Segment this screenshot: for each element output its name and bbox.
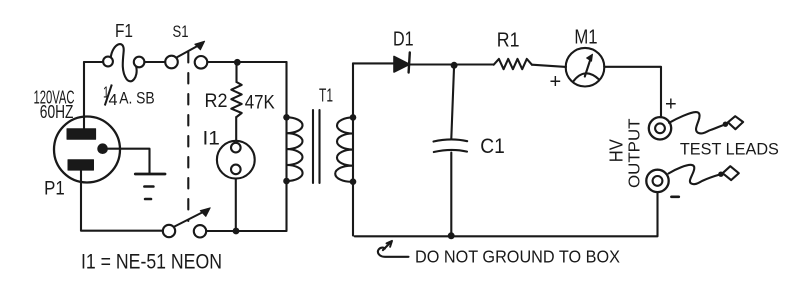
wire bottom jack to bottom rail	[355, 192, 658, 236]
wire R1 to M1	[532, 65, 566, 67]
svg-text:F1: F1	[115, 21, 133, 41]
svg-text:+: +	[550, 71, 562, 93]
wire I1 to bottom rail	[235, 179, 237, 231]
wire S1 lower to primary bottom	[206, 230, 286, 232]
label fuse value 1/4 A. SB	[103, 85, 155, 110]
svg-text:T1: T1	[319, 86, 333, 106]
svg-text:+: +	[665, 94, 677, 116]
capacitor C1	[434, 65, 468, 235]
svg-text:HV: HV	[607, 139, 627, 162]
wire M1 to output corner	[604, 67, 661, 117]
svg-text:OUTPUT: OUTPUT	[627, 118, 644, 188]
svg-text:C1: C1	[480, 135, 505, 158]
resistor R2	[231, 62, 241, 117]
test lead top	[669, 112, 743, 133]
node R2 top junction	[234, 59, 241, 66]
svg-text:R1: R1	[497, 30, 520, 52]
jack J2 negative output	[646, 170, 668, 192]
plug P1	[54, 117, 120, 183]
svg-text:4: 4	[109, 92, 118, 109]
S1 mechanical link dashed line	[187, 52, 189, 221]
wire S1 to transformer primary top, node at R2	[207, 61, 286, 63]
jack J1 positive output	[649, 117, 671, 139]
svg-text:47K: 47K	[245, 93, 275, 114]
svg-text:S1: S1	[173, 22, 189, 41]
transformer T1 primary vertical wire	[285, 62, 287, 231]
wire ground pin to earth	[108, 149, 150, 174]
svg-text:I1 = NE-51 NEON: I1 = NE-51 NEON	[81, 250, 222, 274]
svg-text:TEST LEADS: TEST LEADS	[680, 140, 779, 159]
wire D1 to R1	[410, 63, 494, 65]
node secondary bottom	[350, 178, 357, 185]
svg-text:60HZ: 60HZ	[40, 102, 74, 122]
wire left vertical into plug	[83, 62, 85, 129]
svg-text:D1: D1	[393, 29, 414, 51]
svg-text:R2: R2	[205, 91, 228, 112]
svg-text:I1: I1	[203, 129, 220, 150]
diode D1	[394, 53, 410, 73]
test lead bottom	[669, 165, 739, 184]
node C1 bottom junction	[448, 232, 455, 239]
wire F1 to S1	[144, 61, 165, 63]
svg-text:DO NOT GROUND TO BOX: DO NOT GROUND TO BOX	[415, 246, 620, 266]
wire plug bottom to S1 lower pole	[81, 170, 163, 231]
ground symbol	[135, 174, 165, 199]
node primary bottom	[283, 178, 290, 185]
T1 core	[313, 110, 320, 183]
wire R2 to I1	[235, 117, 237, 141]
transformer secondary vertical wire	[352, 63, 354, 235]
minus label	[671, 196, 678, 199]
node secondary top	[350, 114, 357, 121]
svg-text:A. SB: A. SB	[119, 89, 155, 108]
meter M1	[566, 48, 605, 87]
T1 secondary winding	[335, 117, 353, 181]
svg-text:M1: M1	[574, 27, 597, 49]
neon lamp I1	[217, 141, 255, 179]
switch S1 top pole	[165, 41, 207, 68]
node C1 top junction	[451, 62, 458, 69]
switch S1 bottom pole	[163, 208, 210, 238]
resistor R1	[494, 59, 532, 69]
arrow do-not-ground callout	[378, 241, 409, 257]
fuse F1	[103, 44, 144, 81]
node primary top	[283, 114, 290, 121]
T1 primary winding	[287, 117, 303, 181]
node bottom junction under I1	[233, 228, 240, 235]
wire top-left horizontal	[84, 61, 103, 63]
wire secondary top to D1	[353, 62, 394, 64]
svg-text:P1: P1	[44, 179, 65, 200]
